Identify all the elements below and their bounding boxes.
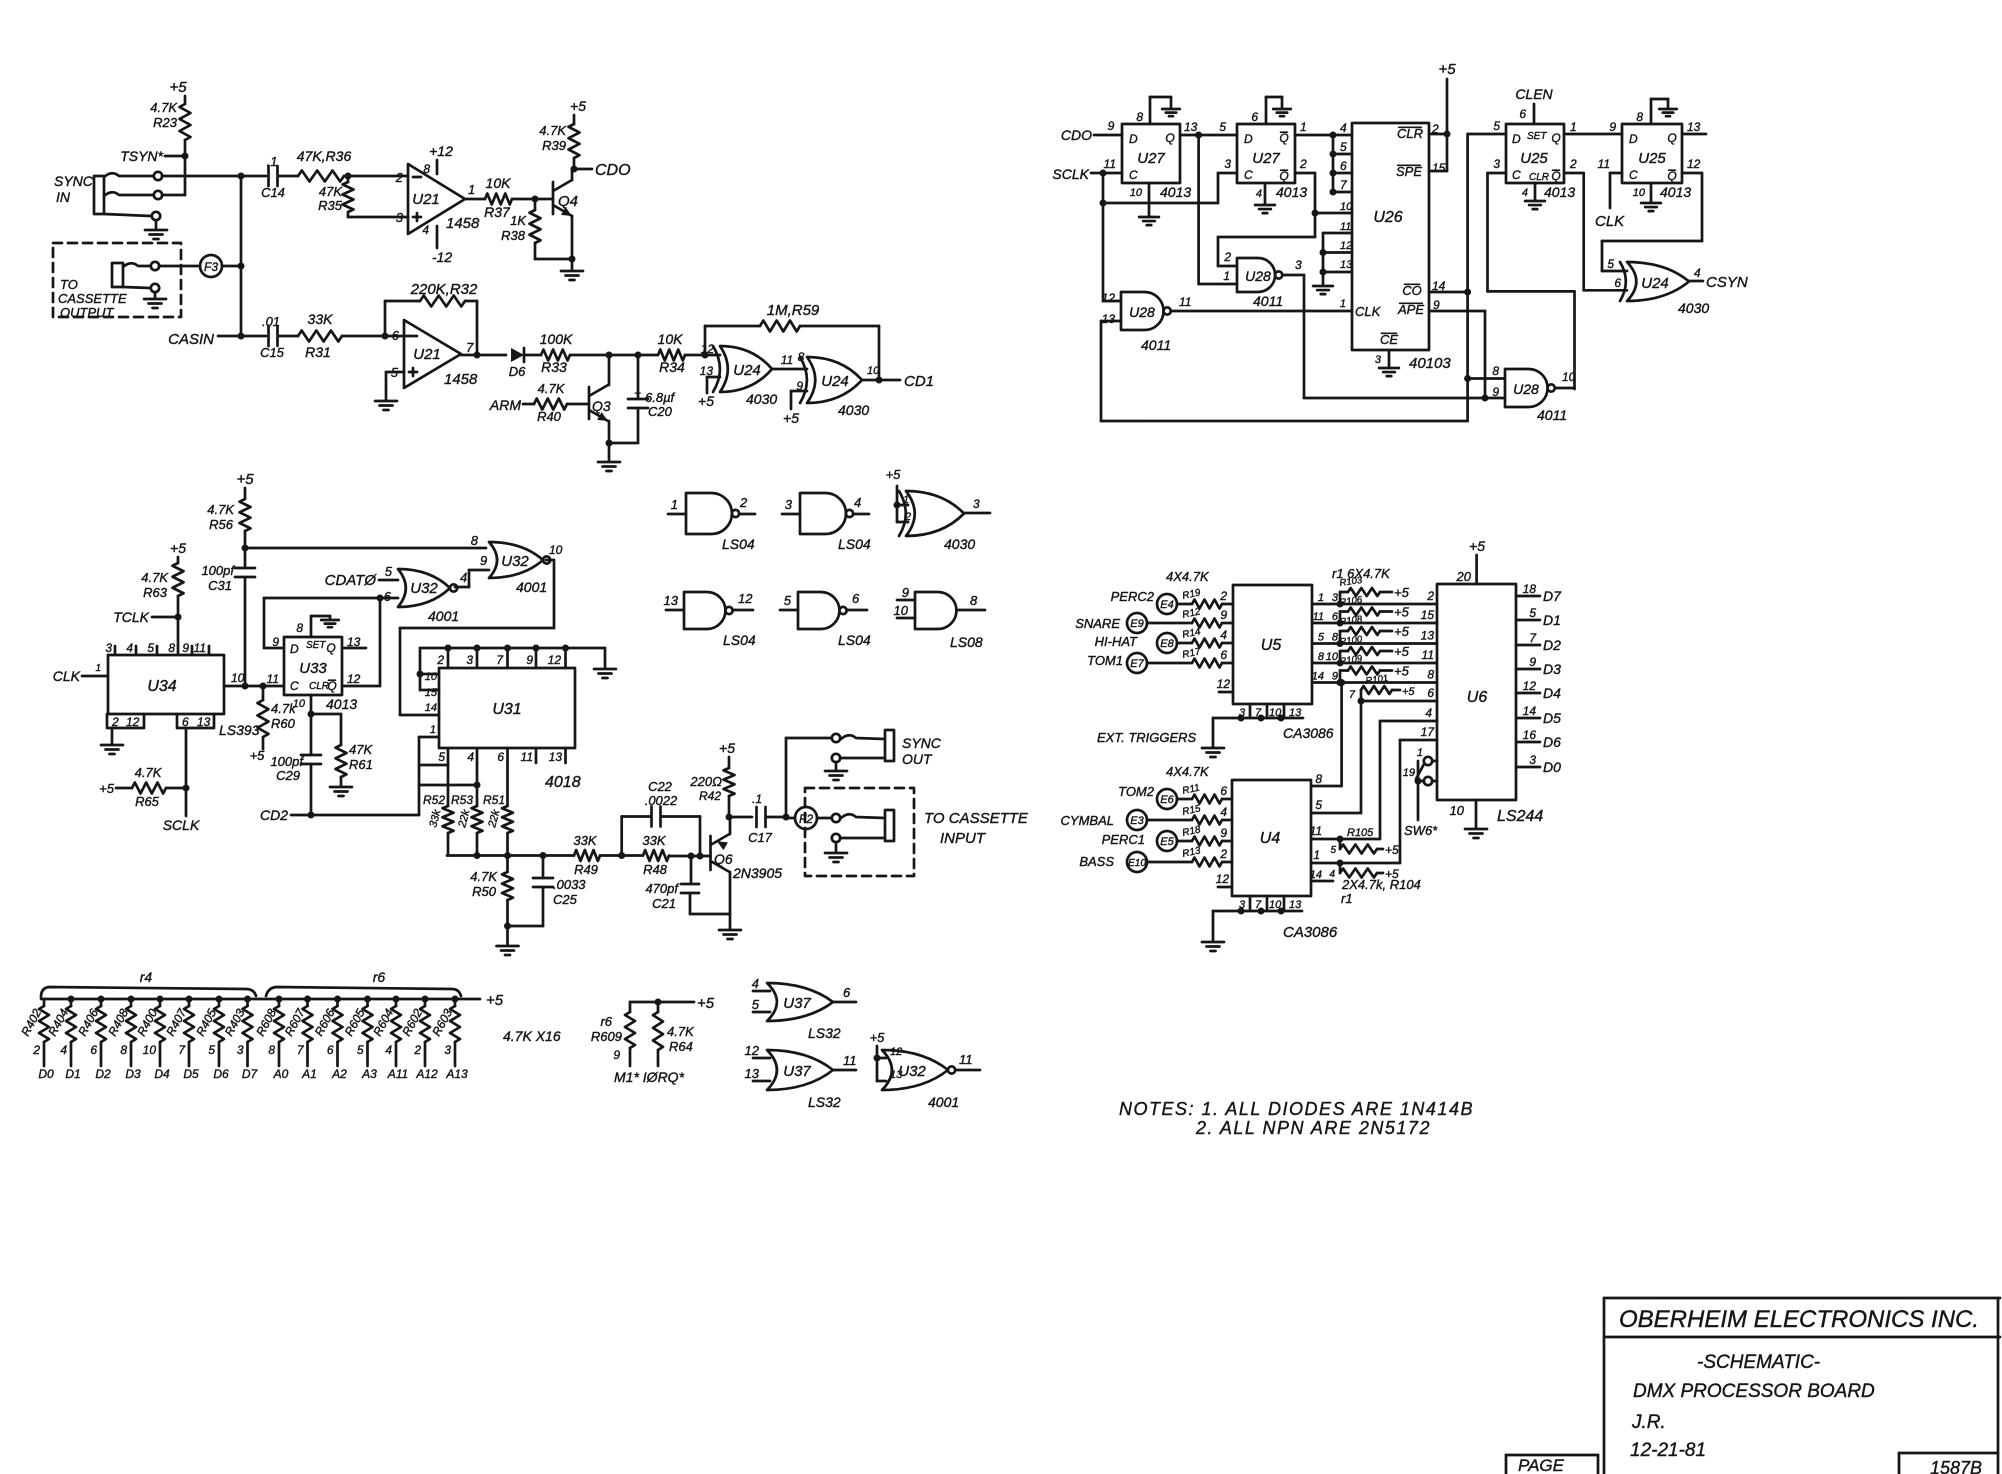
wire TSYN to jack contact [184,156,187,195]
svg-text:R23: R23 [153,115,178,130]
svg-text:12: 12 [745,1043,760,1058]
resistor R56 4.7K [240,499,251,531]
wire R5x common node [447,854,574,857]
svg-text:11: 11 [1104,157,1116,171]
transistor array U4 CA3086 [1232,780,1311,896]
svg-text:Q: Q [1551,131,1560,145]
svg-text:4: 4 [1220,628,1227,642]
resistor R108 pullup [1337,640,1344,647]
svg-text:+5: +5 [1385,843,1399,857]
svg-text:6: 6 [392,328,400,343]
ground (U21b pin 5) [375,400,397,403]
svg-text:14: 14 [1312,671,1324,683]
svg-text:+5: +5 [99,781,115,796]
svg-text:Q3: Q3 [592,398,611,414]
svg-text:6: 6 [1220,648,1227,662]
svg-text:SPE: SPE [1396,164,1422,179]
wire U6 pin 4 from U4 pin 11 [1380,720,1437,723]
capacitor C25 .0033 [542,856,545,879]
wire vertical bus (sync/casin) [240,176,243,336]
ground bracket (U33 SET pin 8) [310,616,313,637]
svg-text:33K: 33K [642,833,666,848]
svg-text:10: 10 [549,543,563,557]
svg-text:1587B: 1587B [1930,1458,1982,1474]
svg-text:5: 5 [752,997,760,1012]
flip-flop U25 4013 (first) [1506,124,1564,183]
flip-flop U25 4013 (second) [1622,124,1682,183]
svg-text:D4: D4 [1543,685,1561,701]
svg-text:4.7K: 4.7K [207,502,235,517]
svg-text:U21: U21 [413,346,441,363]
ground (U26 CE pin 3) [1388,350,1391,367]
svg-text:R609: R609 [591,1029,622,1044]
svg-text:8: 8 [296,621,303,635]
svg-text:.0022: .0022 [645,793,678,808]
svg-text:100pf: 100pf [270,754,304,769]
wire U27a Q to U27b D [1180,134,1237,137]
svg-text:C15: C15 [260,345,285,360]
svg-text:13: 13 [664,593,679,608]
svg-text:SCLK: SCLK [163,817,200,833]
svg-text:+5: +5 [719,740,735,756]
svg-text:D0: D0 [38,1067,54,1081]
svg-text:470pf: 470pf [645,881,679,896]
resistor R103 pullup [1337,601,1344,608]
svg-text:1M,R59: 1M,R59 [767,302,820,319]
wire U21b output [461,354,506,357]
inverter U36 (1-2) [686,493,732,534]
wire U4 pin 1 [1311,862,1400,865]
ground (U26 pins 11-13) [1313,285,1333,288]
svg-text:E3: E3 [1130,815,1144,827]
svg-text:+5: +5 [236,471,254,488]
svg-text:6: 6 [852,591,860,606]
svg-text:Q4: Q4 [558,193,578,210]
node F2 junction [783,814,790,821]
svg-text:R42: R42 [699,789,721,803]
wire CDAT loop (U33 D/Q to gate pin 6) [264,597,398,600]
svg-text:+5: +5 [870,1030,886,1045]
svg-text:Q: Q [327,679,336,693]
counter U34 LS393 [108,655,224,714]
wire U31 pins 10,15 [419,648,422,690]
svg-text:5: 5 [1219,120,1226,134]
svg-text:4: 4 [126,641,133,655]
svg-text:11: 11 [843,1053,857,1068]
svg-text:U26: U26 [1373,209,1402,226]
svg-text:1: 1 [1570,120,1577,134]
U4 pin 12 stub [1218,886,1232,889]
resistor R23 4.7K [180,104,191,140]
resistor R605 (A3) [364,996,371,1003]
nor gate U32 (5,6-4) [398,569,450,607]
svg-text:r4: r4 [140,969,153,985]
svg-text:5: 5 [1607,257,1614,271]
node D1 [1516,619,1540,622]
inverter U36 (3-4) [800,493,846,534]
svg-text:7: 7 [466,340,474,355]
wire U34 pin10 to U33 clock [224,685,284,688]
nand gate U28 (8,9-10) [1505,369,1548,407]
svg-text:12: 12 [1102,291,1116,305]
jack sleeve to ground [104,214,151,216]
svg-text:HI-HAT: HI-HAT [1095,634,1138,649]
svg-text:U24: U24 [1641,275,1669,292]
svg-text:E9: E9 [1130,618,1143,630]
xor gate U24 (5,6-4) CSYN [1627,262,1689,301]
svg-text:4.7k: 4.7k [271,701,297,716]
svg-text:9: 9 [182,641,189,655]
resistor R105 pullup [1337,836,1344,843]
wire U28a out to APE/U28c [1282,274,1304,277]
feedback resistor R32 220K [384,301,387,336]
resistor R100 pullup [1337,660,1344,667]
svg-text:+5: +5 [486,992,504,1009]
svg-text:D3: D3 [125,1067,141,1081]
svg-text:11: 11 [1598,157,1610,171]
svg-text:CA3086: CA3086 [1283,924,1338,941]
svg-text:12: 12 [1523,679,1537,693]
svg-text:LS04: LS04 [723,632,756,648]
svg-text:4030: 4030 [838,402,869,418]
svg-text:C: C [1244,168,1253,182]
svg-text:CE: CE [1380,332,1398,347]
svg-text:3: 3 [1224,157,1231,171]
svg-text:220Ω: 220Ω [689,774,722,789]
wire CO to U25a D [1468,133,1506,136]
wire U4 pin 11 [1311,838,1380,841]
svg-text:2: 2 [1426,589,1434,603]
svg-text:10: 10 [894,603,909,618]
svg-text:8: 8 [168,641,175,655]
resistor R406 (D2) [98,996,105,1003]
wire U32a out to U32b pin 9 [455,586,469,589]
svg-text:Q: Q [326,641,335,655]
svg-text:OUTPUT: OUTPUT [60,305,115,320]
svg-text:5: 5 [208,1043,215,1057]
node CDO output [571,166,578,173]
svg-text:9: 9 [1492,385,1499,399]
resistor R604 (A11) [393,996,400,1003]
wire F3 to node [222,265,241,268]
brace r6 [266,987,461,996]
inverter U36 (13-12) [684,592,725,629]
svg-text:R40: R40 [537,409,562,424]
svg-text:6: 6 [90,1043,97,1057]
wire U24a out to U24b [772,368,807,371]
svg-text:47K,R36: 47K,R36 [297,148,352,164]
resistor R52 33k [447,763,450,806]
svg-text:DMX PROCESSOR BOARD: DMX PROCESSOR BOARD [1633,1381,1875,1402]
svg-text:1: 1 [430,724,436,736]
svg-text:LS04: LS04 [838,536,871,552]
nand gate U28 (1,2-3) [1237,258,1275,292]
resistor R606 (A2) [334,996,341,1003]
fuse F2 [795,807,817,829]
svg-text:4.7K: 4.7K [538,381,566,396]
wire U25a C pin 3 from U28c [1488,172,1507,175]
svg-text:CSYN: CSYN [1706,274,1748,291]
svg-text:3: 3 [1375,354,1382,366]
svg-text:D5: D5 [1543,710,1561,726]
resistor R60 4.7K pull [262,686,265,700]
svg-text:.01: .01 [262,314,280,329]
wire U31 pin 1 tab [419,736,439,739]
svg-text:C: C [1512,168,1521,182]
svg-text:11: 11 [1422,648,1434,662]
resistor R403 (D7) [244,996,251,1003]
resistor R408 (D3) [128,996,135,1003]
wire U25a Qbar pin 2 to U24d pin 6 [1564,172,1584,175]
svg-text:9: 9 [1529,655,1536,669]
capacitor C17 .1 [755,807,758,827]
svg-text:3: 3 [1493,157,1500,171]
svg-text:LS04: LS04 [838,632,871,648]
svg-text:E10: E10 [1128,858,1146,869]
xor gate U24 (pins 8,9) [807,357,862,403]
svg-text:14: 14 [1310,869,1322,881]
svg-text:A13: A13 [445,1067,468,1081]
svg-text:18: 18 [1523,582,1537,596]
node D3 [1516,668,1540,671]
svg-text:CO: CO [1402,283,1422,298]
svg-text:1: 1 [1340,298,1346,310]
wire U33 CLR pin 10 [310,695,313,714]
svg-text:D2: D2 [95,1067,111,1081]
svg-text:4.7K X16: 4.7K X16 [503,1028,561,1044]
wire U28c out up [1555,387,1575,390]
svg-text:2: 2 [1223,250,1231,264]
svg-text:PERC1: PERC1 [1102,832,1145,847]
svg-text:12: 12 [738,591,753,606]
svg-text:U37: U37 [783,995,811,1012]
svg-text:CLK: CLK [1355,304,1382,319]
capacitor C31 100pf [244,548,247,568]
svg-text:4: 4 [1425,706,1432,720]
svg-text:10K: 10K [658,331,684,347]
resistor R603 (A13) [452,996,459,1003]
jack cassette input [817,817,832,820]
svg-text:C17: C17 [748,830,773,845]
svg-text:10: 10 [1130,187,1143,199]
svg-text:+5: +5 [697,995,715,1012]
svg-text:4: 4 [1220,805,1227,819]
svg-text:E6: E6 [1160,794,1174,806]
resistor R607 (A1) [304,996,311,1003]
svg-text:OUT: OUT [902,751,933,767]
svg-text:13: 13 [1687,120,1701,134]
svg-text:+5: +5 [1394,605,1410,620]
svg-text:Q6: Q6 [714,851,733,867]
svg-text:U25: U25 [1638,150,1666,167]
svg-text:12: 12 [1217,677,1231,691]
svg-text:13: 13 [1289,899,1302,911]
svg-text:12: 12 [890,1046,902,1058]
svg-text:U37: U37 [783,1063,811,1080]
svg-text:R56: R56 [209,517,234,532]
svg-text:APE: APE [1397,302,1424,317]
svg-text:D0: D0 [1543,759,1561,775]
svg-text:-SCHEMATIC-: -SCHEMATIC- [1697,1352,1820,1373]
svg-text:+5: +5 [783,410,799,426]
svg-text:3: 3 [785,497,793,512]
or gate U37 (4,5-6) [767,983,833,1021]
wire U32b output loop to U31 pin 14 [546,559,554,562]
capacitor C21 470pf [688,853,695,860]
U5 pin 12 stub [1219,691,1233,694]
svg-text:D1: D1 [1543,612,1561,628]
svg-text:1458: 1458 [446,215,480,232]
svg-text:14: 14 [1523,704,1537,718]
resistor R49 33K [574,850,600,861]
ground (U6 pin 10) [1475,800,1478,828]
svg-text:R64: R64 [669,1039,693,1054]
node D5 [1516,717,1540,720]
U26 preset bus pins 4-7 [1332,135,1335,192]
svg-text:U34: U34 [147,678,176,695]
svg-text:Q: Q [1279,169,1288,183]
svg-text:IN: IN [56,189,71,205]
svg-text:3: 3 [237,1043,244,1057]
svg-text:U24: U24 [733,362,761,379]
svg-text:D: D [290,642,299,656]
svg-text:M1* IØRQ*: M1* IØRQ* [614,1069,685,1085]
svg-text:10: 10 [231,671,245,685]
svg-text:+: + [634,386,641,400]
resistor R14 [1177,642,1192,645]
svg-text:12: 12 [126,715,140,729]
resistor R50 4.7K [506,856,509,873]
svg-text:5: 5 [438,750,445,764]
svg-text:C: C [290,679,299,693]
svg-text:6: 6 [1220,784,1227,798]
svg-text:10K: 10K [486,175,512,191]
svg-text:4: 4 [1256,188,1262,200]
svg-text:CLK: CLK [53,668,81,684]
svg-text:13: 13 [1421,629,1435,643]
wire U21b + input to ground [386,371,404,374]
svg-text:+5: +5 [1438,61,1456,78]
svg-text:6: 6 [843,985,851,1000]
svg-text:CDO: CDO [1061,127,1092,143]
transistor array U5 CA3086 [1233,585,1312,704]
wire R35 to op-amp + input [348,216,404,219]
svg-text:R49: R49 [574,862,598,877]
svg-text:3: 3 [1295,258,1302,272]
svg-text:CLK: CLK [1595,213,1625,230]
wire U28b inputs [1103,300,1121,303]
svg-text:10: 10 [143,1043,157,1057]
svg-text:R48: R48 [643,862,668,877]
resistor R31 33K [298,331,342,342]
resistor R18 [1177,840,1192,843]
svg-text:15: 15 [425,687,438,699]
U34 bottom tabs [107,714,144,728]
ground (U4 emitters) [1202,941,1224,944]
svg-text:13: 13 [1289,707,1302,719]
resistor R400 (D4) [157,996,164,1003]
power +5 (U24 pin 9) [791,390,807,393]
resistor R34 10K [658,350,685,361]
svg-text:C: C [1129,168,1138,182]
svg-text:U28: U28 [1245,268,1271,284]
wire CD2 up to U31 pin1 [418,737,421,815]
svg-text:C25: C25 [553,892,578,907]
svg-text:SNARE: SNARE [1075,616,1120,631]
resistor R407 (D5) [186,996,193,1003]
svg-text:10: 10 [1450,803,1465,818]
wire +5 bar (R609/R64) [630,1001,694,1004]
wire U27a Q down to U28a pin 1 [1197,135,1200,284]
svg-text:3: 3 [105,641,112,655]
diode D6 [511,348,524,362]
svg-text:9: 9 [526,653,533,667]
svg-text:SYNC: SYNC [902,735,942,751]
svg-text:CA3086: CA3086 [1283,725,1334,741]
svg-text:D7: D7 [1543,588,1562,604]
svg-text:2: 2 [1219,589,1227,603]
svg-text:A11: A11 [387,1067,408,1081]
ground (U27a pin 10) [1148,183,1151,216]
svg-text:6: 6 [327,1043,334,1057]
svg-text:20: 20 [1456,569,1472,584]
svg-text:TO: TO [60,277,78,292]
svg-text:E7: E7 [1130,658,1144,670]
resistor R101 pullup / U6 pin 6 line [1361,700,1437,703]
svg-text:4011: 4011 [1253,293,1283,309]
svg-text:CLR: CLR [1529,172,1549,183]
svg-text:3: 3 [466,653,473,667]
svg-text:8: 8 [471,533,479,548]
resistor R402 (D0) [43,999,46,1006]
flip-flop U33 4013 [284,637,342,695]
resistor R609 (r6) [629,1002,632,1012]
ground (U34 pin 2) [111,728,114,744]
nor gate U32 (8,9-10) [489,542,543,578]
svg-text:U27: U27 [1252,150,1280,167]
svg-text:14: 14 [425,702,437,714]
resistor R13 [1147,861,1192,864]
svg-text:33K: 33K [573,833,597,848]
resistor R64 4.7K [657,1002,660,1012]
svg-text:17: 17 [1421,725,1436,739]
svg-text:Q: Q [1165,131,1174,145]
wire feedback bottom [1101,420,1468,423]
ground (U31 bus) [594,668,616,671]
svg-text:TO CASSETTE: TO CASSETTE [924,810,1029,827]
svg-text:5: 5 [1315,798,1322,812]
fuse F3 [200,255,222,277]
svg-text:U28: U28 [1513,381,1539,397]
svg-text:PAGE: PAGE [1518,1456,1565,1474]
resistor R12 [1147,622,1192,625]
svg-text:+5: +5 [1394,644,1410,659]
svg-text:LS393: LS393 [219,722,260,738]
svg-text:11: 11 [1340,221,1351,233]
svg-text:4: 4 [1329,869,1335,880]
resistor R19 [1177,603,1192,606]
wire U4 pin 14 stub [1311,880,1333,883]
resistor R61 47K [336,745,347,777]
svg-text:12: 12 [1340,240,1352,252]
svg-text:4: 4 [752,976,759,991]
svg-text:C31: C31 [208,578,232,593]
svg-text:12: 12 [347,672,361,686]
ground (cassette out jack) [144,298,166,301]
dashed box TO CASSETTE OUTPUT [53,243,181,317]
wire SCLK vertical [1102,173,1105,301]
svg-text:U32: U32 [898,1063,926,1080]
